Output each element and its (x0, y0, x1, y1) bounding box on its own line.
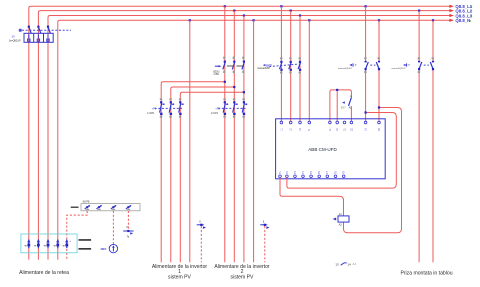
switch F1 pole 3 (179, 98, 184, 117)
terminal X8:3 (111, 205, 117, 210)
svg-text:+F2: +F2 (215, 107, 220, 111)
pin T7 bottom (326, 171, 329, 178)
node label Q8.8_L3 (455, 14, 472, 19)
pin L1 top (280, 121, 283, 131)
svg-text:manual/QF/LP: manual/QF/LP (338, 68, 353, 70)
pin T3 bottom (294, 171, 297, 178)
pin 13 top (364, 121, 367, 131)
terminal X8:4 (126, 205, 132, 210)
pin L3 top (299, 121, 302, 131)
wire L2 drop to CM-UFD pin L2 (290, 11, 292, 122)
svg-text:/8: /8 (469, 19, 472, 23)
junction L1 at x365.6 (365, 5, 367, 7)
wire L3 drop to switch Q2 (243, 16, 245, 263)
terminal supply L1 (25, 239, 31, 248)
pin T9 bottom (342, 171, 345, 178)
switch ES7 contact (341, 96, 353, 110)
pin 12 top (336, 121, 339, 131)
wire dashed PE inverter 2 (264, 226, 266, 262)
wire L1 drop to CM-UFD pin L1 (280, 6, 282, 121)
svg-text:manual/ESP: manual/ESP (257, 68, 270, 70)
svg-text:1e=QB2/LP: 1e=QB2/LP (9, 40, 21, 42)
junction L2 at x290.7 (290, 10, 292, 12)
svg-text:A: A (353, 262, 355, 266)
contact K1 L pole (364, 57, 368, 73)
svg-text:13: 13 (335, 262, 339, 266)
pin T1 bottom (279, 171, 282, 178)
supply terminal box (21, 234, 77, 253)
wire L2 drop to contact K2 priza (418, 11, 420, 263)
junction L1 at x281.4 (280, 5, 282, 7)
busbar N black (79, 239, 92, 241)
pin T4 bottom (302, 171, 305, 178)
pin N top (308, 121, 311, 131)
wire pin T1 to relay A1 (280, 178, 344, 216)
node label Q8.8_L1 (455, 4, 472, 9)
terminal supply PE (63, 239, 72, 248)
junction L3 at x243.9 (243, 14, 245, 16)
svg-text:14: 14 (347, 262, 351, 266)
svg-text:+F1: +F1 (152, 107, 157, 111)
pin 22 top (350, 121, 353, 131)
circuit breaker Q1 main (24, 26, 53, 43)
label alimentare invertor 2 (214, 264, 270, 281)
pin T5 bottom (310, 171, 313, 178)
switch Q3 OFF pole 1 (280, 57, 283, 73)
wire L1 drop to contact K1 (365, 6, 367, 121)
switch Q2 3-pole (223, 57, 245, 73)
wire L3 drop to CM-UFD pin L3 (299, 16, 301, 122)
svg-text:-X8 PE: -X8 PE (82, 201, 90, 204)
wire N drop to contact K2 priza (432, 20, 434, 262)
junction L2 at x234.3 (233, 10, 235, 12)
wire PE dashed strip to supply (67, 211, 87, 260)
terminal supply L2 (34, 239, 40, 248)
wire dashed X8:4 to earth (127, 211, 129, 229)
svg-text:+: + (69, 239, 71, 243)
svg-text:sistem PV: sistem PV (231, 275, 255, 281)
wire N drop to contact K1 (378, 20, 380, 121)
svg-text:sistem PV: sistem PV (168, 275, 192, 281)
junction N at x309.3 (308, 19, 310, 21)
label priza (400, 270, 452, 276)
svg-text:manual/QF/LP: manual/QF/LP (392, 68, 407, 70)
node label Q8.8_L2 (455, 9, 472, 14)
node label Q8.8_N (455, 18, 471, 23)
wire ES7 bridge (330, 89, 352, 121)
pin T6 bottom (318, 171, 321, 178)
contact K2 link and label (392, 63, 429, 70)
wire bus N (58, 20, 450, 259)
switch Q3 OFF pole 3 (298, 57, 301, 73)
junction N at x433 (432, 19, 434, 21)
switch F1 link and label (147, 107, 182, 115)
contact K2 N pole (430, 57, 434, 70)
pin T2 bottom (286, 171, 289, 178)
svg-text:1=CP1: 1=CP1 (211, 113, 219, 115)
wire dashed PE inverter 1 (200, 226, 202, 262)
ground PE inverter 2 (260, 222, 269, 229)
busbar stub near X8 (71, 207, 79, 208)
switch Q3 OFF pole 2 (289, 57, 292, 73)
pin 11 top (329, 121, 332, 131)
contact K1 link and label (338, 63, 375, 70)
junction N at x253.6 (253, 19, 255, 21)
wire tap L3 to F1 (180, 91, 245, 262)
wire dashed X8:3 to REF (112, 211, 114, 244)
contact K1 N pole (376, 57, 380, 70)
label alimentare invertor 1 (152, 264, 208, 281)
junction L1 at x224.8 (224, 5, 226, 7)
svg-text:N: N (308, 129, 311, 131)
wire bus L1 (29, 6, 450, 259)
breaker label 1e=QB2/LP (9, 34, 21, 42)
relay coil K1 (333, 213, 349, 226)
relay K1 contact cross-reference (335, 262, 356, 266)
wire tap L1 to F1 (161, 81, 226, 263)
svg-text:1=CP1: 1=CP1 (147, 113, 155, 115)
contact K2 L pole (418, 57, 422, 73)
svg-text:ABB CM-UFD: ABB CM-UFD (308, 147, 337, 152)
terminal X8:2 (96, 205, 102, 210)
junction L3 at x300 (299, 14, 301, 16)
svg-text:REF: REF (101, 247, 107, 251)
switch F2 link and label (211, 107, 246, 115)
breaker handle link (19, 29, 71, 32)
switch F1 pole 2 (169, 98, 174, 117)
junction N at x379 (378, 19, 380, 21)
pin 23 top (378, 121, 381, 131)
terminal X8:1 (85, 205, 91, 210)
wire bus L3 (48, 16, 450, 260)
switch Q2 actuator label (213, 65, 221, 76)
ground earth bar Ta (123, 227, 133, 238)
wire riser node 23 to relay A2 (344, 106, 402, 232)
switch F2 pole 2 (233, 98, 238, 117)
pin T8 bottom (334, 171, 337, 178)
wire L2 drop to switch Q2 (233, 11, 235, 263)
node arrow N (449, 19, 454, 22)
pin 21 top (343, 121, 346, 131)
svg-text:Alimentare de la retea: Alimentare de la retea (19, 270, 69, 276)
terminal supply L3 (44, 239, 50, 248)
svg-text:OFF: OFF (266, 63, 272, 67)
wire N drop to CM-UFD pin N (308, 20, 310, 121)
wire bus L2 (38, 11, 449, 260)
wire N drop to inverter 1 (189, 20, 191, 262)
switch F2 pole 1 (223, 98, 228, 117)
switch F1 pole 1 (160, 98, 165, 117)
switch F2 pole 3 (242, 98, 247, 117)
svg-text:ES7: ES7 (341, 106, 346, 110)
switch Q3 link and OFF label (257, 63, 302, 70)
ground REF electrode (101, 244, 118, 252)
svg-text:1=B4: 1=B4 (213, 74, 219, 76)
wire riser pin T2 to node 13 (287, 111, 396, 188)
svg-text:/8: /8 (470, 14, 473, 18)
junction L2 at x419.1 (418, 10, 420, 12)
relay U1 box ABB CM-UFD (276, 119, 386, 179)
busbar PE black (79, 248, 92, 250)
node arrow L3 (449, 14, 454, 17)
node arrow L1 (449, 5, 454, 8)
terminal strip X8 (81, 201, 140, 211)
junction N at x189.8 (189, 19, 191, 21)
pin L2 top (289, 121, 292, 131)
node arrow L2 (449, 9, 454, 12)
terminal supply N (54, 239, 60, 248)
wire N drop to inverter 2 (253, 20, 255, 262)
wire tap L2 to F1 (171, 86, 236, 262)
svg-text:Priza montata in tablou: Priza montata in tablou (400, 270, 452, 276)
wire L1 drop to switch Q2 (224, 6, 226, 262)
ground PE inverter 1 (197, 222, 206, 229)
label alimentare retea (19, 270, 69, 276)
